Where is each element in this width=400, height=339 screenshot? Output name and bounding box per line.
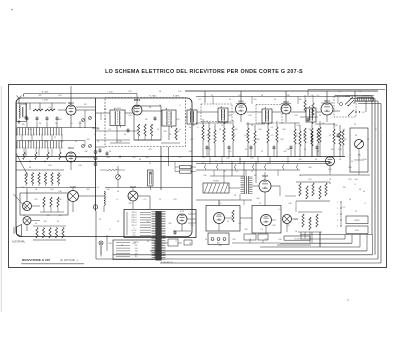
svg-text:5: 5 (337, 226, 338, 228)
svg-text:330: 330 (308, 167, 311, 169)
svg-text:330: 330 (201, 163, 204, 165)
svg-text:FUS.: FUS. (355, 230, 360, 232)
svg-text:1M: 1M (331, 149, 334, 151)
svg-text:B 1306: B 1306 (42, 91, 49, 93)
svg-text:A TELAIO DI....: A TELAIO DI.... (161, 261, 175, 264)
svg-text:0,1: 0,1 (271, 135, 274, 137)
svg-text:0,1: 0,1 (119, 157, 122, 159)
svg-text:1M: 1M (44, 221, 47, 223)
svg-text:470: 470 (202, 157, 205, 159)
svg-text:1M: 1M (22, 124, 25, 126)
svg-text:470: 470 (132, 243, 135, 245)
svg-text:A.P.: A.P. (217, 241, 221, 244)
svg-text:0,1: 0,1 (261, 229, 264, 231)
svg-text:25: 25 (251, 171, 253, 173)
svg-text:L 1300: L 1300 (42, 100, 49, 102)
svg-text:330: 330 (298, 99, 301, 101)
svg-text:470: 470 (303, 135, 306, 137)
svg-text:220: 220 (86, 139, 89, 141)
svg-text:25: 25 (259, 203, 261, 205)
svg-text:470: 470 (173, 199, 176, 201)
svg-text:330: 330 (258, 129, 261, 131)
svg-text:0,1: 0,1 (317, 95, 320, 97)
svg-text:1M: 1M (104, 109, 107, 111)
svg-text:25: 25 (229, 99, 231, 101)
svg-text:6BE6: 6BE6 (134, 99, 141, 102)
svg-text:470: 470 (60, 141, 63, 143)
svg-text:S.2861: S.2861 (114, 108, 121, 110)
svg-text:25: 25 (221, 125, 223, 127)
svg-text:1M: 1M (219, 245, 222, 247)
svg-text:6BM8: 6BM8 (262, 176, 269, 178)
svg-text:50: 50 (104, 119, 106, 121)
svg-text:25: 25 (329, 135, 331, 137)
svg-text:470: 470 (253, 99, 256, 101)
svg-text:470: 470 (96, 129, 99, 131)
svg-text:0,1: 0,1 (271, 127, 274, 129)
svg-text:100: 100 (176, 119, 179, 121)
svg-text:470: 470 (238, 95, 241, 97)
svg-text:50: 50 (94, 134, 96, 136)
svg-text:25: 25 (261, 151, 263, 153)
svg-text:0,5: 0,5 (161, 245, 164, 247)
svg-text:220: 220 (128, 91, 131, 93)
svg-text:25: 25 (211, 95, 213, 97)
svg-text:470: 470 (288, 203, 291, 205)
svg-text:1M: 1M (343, 187, 346, 189)
svg-text:0,5: 0,5 (29, 129, 32, 131)
svg-text:L 130: L 130 (107, 91, 113, 93)
svg-text:100: 100 (294, 135, 297, 137)
svg-text:100: 100 (328, 169, 331, 171)
svg-text:25: 25 (227, 221, 229, 223)
svg-text:0,5: 0,5 (144, 199, 147, 201)
svg-text:330: 330 (58, 175, 61, 177)
svg-text:470: 470 (283, 151, 286, 153)
svg-text:0,5: 0,5 (236, 171, 239, 173)
svg-text:50: 50 (57, 221, 59, 223)
svg-text:25: 25 (159, 199, 161, 201)
svg-text:220: 220 (34, 199, 37, 201)
svg-text:100: 100 (248, 115, 251, 117)
svg-text:470: 470 (23, 154, 26, 156)
svg-text:1M: 1M (254, 175, 257, 177)
svg-text:220: 220 (264, 239, 267, 241)
svg-text:8: 8 (209, 149, 210, 151)
svg-text:0,1: 0,1 (329, 163, 332, 165)
svg-text:330: 330 (128, 203, 131, 205)
svg-text:1M: 1M (145, 119, 148, 121)
svg-text:100: 100 (58, 199, 61, 201)
svg-text:0,5: 0,5 (29, 141, 32, 143)
svg-text:0,5: 0,5 (343, 207, 346, 209)
svg-text:RICEVITORE G 207: RICEVITORE G 207 (22, 258, 50, 262)
svg-text:25: 25 (191, 161, 193, 163)
svg-text:470: 470 (128, 197, 131, 199)
svg-text:220: 220 (21, 187, 24, 189)
svg-text:1: 1 (337, 202, 338, 204)
svg-text:100: 100 (58, 95, 61, 97)
svg-text:0,5: 0,5 (229, 151, 232, 153)
svg-text:0,5: 0,5 (179, 157, 182, 159)
svg-text:330: 330 (256, 198, 259, 200)
svg-text:8: 8 (109, 229, 110, 231)
svg-text:0,1: 0,1 (97, 187, 100, 189)
svg-text:1M: 1M (59, 215, 62, 217)
svg-text:220: 220 (206, 135, 209, 137)
svg-text:8: 8 (224, 171, 225, 173)
svg-text:6BA6: 6BA6 (68, 147, 75, 150)
svg-text:1M: 1M (177, 131, 180, 133)
svg-text:R.2842: R.2842 (150, 95, 158, 97)
svg-text:S.2BIS: S.2BIS (173, 95, 180, 97)
svg-text:50: 50 (205, 239, 207, 241)
svg-text:160: 160 (135, 248, 138, 250)
svg-text:330: 330 (106, 157, 109, 159)
svg-text:100: 100 (296, 125, 299, 127)
svg-text:1M: 1M (84, 104, 87, 106)
svg-text:470: 470 (286, 225, 289, 227)
svg-text:220: 220 (348, 179, 351, 181)
svg-text:50: 50 (39, 123, 41, 125)
svg-text:50: 50 (157, 129, 159, 131)
svg-text:25: 25 (45, 141, 47, 143)
svg-text:25: 25 (54, 137, 56, 139)
svg-text:6AQ5: 6AQ5 (70, 186, 77, 189)
svg-text:330: 330 (256, 139, 259, 141)
svg-text:0,5: 0,5 (199, 99, 202, 101)
svg-text:1M: 1M (344, 139, 347, 141)
svg-text:0,1: 0,1 (49, 107, 52, 109)
svg-text:0,1: 0,1 (279, 209, 282, 211)
svg-text:0,1: 0,1 (69, 103, 72, 105)
svg-text:RETE: RETE (354, 220, 360, 222)
svg-text:50: 50 (189, 127, 191, 129)
svg-text:220: 220 (135, 245, 138, 247)
svg-text:3: 3 (337, 214, 338, 216)
svg-text:330: 330 (106, 189, 109, 191)
svg-text:50: 50 (354, 124, 356, 126)
svg-text:50: 50 (149, 163, 151, 165)
svg-text:50: 50 (351, 161, 353, 163)
svg-text:8: 8 (354, 184, 355, 186)
svg-text:0,5: 0,5 (206, 121, 209, 123)
svg-text:470: 470 (234, 129, 237, 131)
svg-text:FONO: FONO (213, 181, 219, 183)
svg-text:0,5: 0,5 (191, 139, 194, 141)
svg-text:8: 8 (71, 123, 72, 125)
svg-text:220: 220 (226, 158, 229, 160)
svg-text:0,1: 0,1 (311, 95, 314, 97)
svg-text:25: 25 (355, 211, 357, 213)
svg-text:8: 8 (116, 199, 117, 201)
svg-text:100: 100 (278, 239, 281, 241)
svg-text:330: 330 (84, 151, 87, 153)
svg-text:220: 220 (128, 115, 131, 117)
svg-text:220: 220 (308, 129, 311, 131)
svg-text:0,5: 0,5 (343, 129, 346, 131)
svg-text:330: 330 (286, 95, 289, 97)
svg-text:50: 50 (315, 159, 317, 161)
svg-text:1M: 1M (299, 159, 302, 161)
svg-text:1M: 1M (233, 135, 236, 137)
svg-text:330: 330 (108, 243, 111, 245)
svg-text:8: 8 (175, 241, 176, 243)
svg-text:8: 8 (179, 105, 180, 107)
svg-text:4: 4 (337, 220, 338, 222)
svg-text:220: 220 (308, 179, 311, 181)
svg-text:L.BOBINE: L.BOBINE (361, 95, 370, 97)
svg-text:2: 2 (337, 208, 338, 210)
svg-text:50: 50 (35, 223, 37, 225)
svg-text:100: 100 (363, 159, 366, 161)
svg-text:110: 110 (135, 256, 138, 258)
svg-text:8: 8 (179, 129, 180, 131)
svg-text:8: 8 (375, 129, 376, 131)
svg-text:100: 100 (145, 157, 148, 159)
svg-text:220: 220 (294, 115, 297, 117)
svg-text:220: 220 (48, 165, 51, 167)
svg-text:25: 25 (147, 241, 149, 243)
svg-text:(G 207/S/6b...): (G 207/S/6b...) (60, 258, 78, 262)
svg-text:8: 8 (355, 147, 356, 149)
svg-text:8: 8 (197, 127, 198, 129)
svg-text:8: 8 (167, 157, 168, 159)
svg-text:6BA6: 6BA6 (324, 100, 331, 103)
svg-text:0,1: 0,1 (239, 163, 242, 165)
svg-text:0,5: 0,5 (219, 203, 222, 205)
svg-text:R 270: R 270 (294, 238, 299, 240)
svg-text:ALTOPARL.: ALTOPARL. (12, 239, 26, 243)
svg-text:220: 220 (188, 151, 191, 153)
svg-text:0,1: 0,1 (147, 221, 150, 223)
svg-text:100: 100 (358, 91, 361, 93)
svg-text:LO SCHEMA ELETTRICO DEL RICEVI: LO SCHEMA ELETTRICO DEL RICEVITORE PER O… (105, 69, 303, 75)
svg-text:100: 100 (78, 165, 81, 167)
svg-text:50: 50 (299, 175, 301, 177)
svg-text:8: 8 (364, 203, 365, 205)
svg-text:6BA6: 6BA6 (238, 101, 245, 104)
svg-text:140: 140 (135, 251, 138, 253)
svg-text:0,1: 0,1 (109, 129, 112, 131)
svg-text:0,5: 0,5 (239, 223, 242, 225)
svg-text:330: 330 (244, 229, 247, 231)
svg-text:100: 100 (78, 123, 81, 125)
svg-text:100: 100 (190, 225, 193, 227)
svg-text:50: 50 (363, 191, 365, 193)
